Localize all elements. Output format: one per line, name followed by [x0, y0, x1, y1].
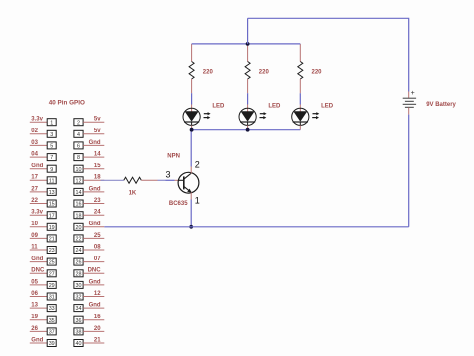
svg-text:220: 220 [259, 70, 270, 76]
GPIO pin 8 (14): pin box, wire stub, net label [74, 152, 104, 162]
GPIO pin 32 (12): pin box, wire stub, net label [74, 291, 104, 301]
LED D2 symbol [239, 105, 267, 126]
wire: Q1 emitter pin stub [190, 192, 192, 199]
wire: Q1 collector pin stub [190, 167, 192, 174]
svg-text:39: 39 [49, 341, 55, 347]
svg-text:20: 20 [76, 225, 82, 231]
GPIO pin 13 (27): wire stub, pin box, net label [30, 186, 56, 196]
svg-text:Gnd: Gnd [89, 221, 101, 227]
svg-text:25: 25 [49, 260, 55, 266]
GPIO pin 23 (11): wire stub, pin box, net label [30, 244, 56, 254]
svg-text:18: 18 [76, 213, 82, 219]
svg-text:220: 220 [312, 70, 323, 76]
svg-text:6: 6 [77, 144, 80, 150]
svg-text:04: 04 [31, 152, 38, 158]
GPIO pin 16 (23): pin box, wire stub, net label [74, 198, 104, 208]
svg-text:9V Battery: 9V Battery [426, 102, 456, 108]
GPIO pin 31 (06): wire stub, pin box, net label [30, 291, 56, 301]
svg-text:36: 36 [76, 318, 82, 324]
svg-text:30: 30 [76, 283, 82, 289]
svg-text:21: 21 [49, 237, 55, 243]
svg-text:16: 16 [94, 314, 101, 320]
GPIO pin 40 (21): pin box, wire stub, net label [74, 337, 104, 347]
wire: battery + pin stub [408, 92, 410, 98]
LED D3 symbol [292, 105, 320, 126]
ground rail wire: GPIO pin 20 to battery negative [104, 226, 408, 228]
svg-text:12: 12 [76, 178, 82, 184]
GPIO pin 39 (Gnd): wire stub, pin box, net label [30, 337, 56, 347]
positive supply rail wire (across resistors) [192, 43, 301, 45]
svg-text:LED: LED [212, 104, 225, 110]
svg-text:07: 07 [94, 256, 101, 262]
svg-text:3: 3 [50, 132, 53, 138]
svg-text:27: 27 [31, 186, 38, 192]
svg-text:28: 28 [76, 271, 82, 277]
GPIO pin 24 (08): pin box, wire stub, net label [74, 244, 104, 254]
GPIO pin 34 (Gnd): pin box, wire stub, net label [74, 303, 104, 313]
wire: Q1 emitter down to ground rail [190, 200, 192, 227]
svg-text:4: 4 [77, 132, 80, 138]
GPIO pin 26 (07): pin box, wire stub, net label [74, 256, 104, 266]
battery B1 9V (plates and + mark) [403, 90, 416, 107]
svg-text:06: 06 [31, 291, 38, 297]
svg-text:32: 32 [76, 295, 82, 301]
svg-text:25: 25 [94, 233, 101, 239]
GPIO pin 22 (25): pin box, wire stub, net label [74, 233, 104, 243]
svg-text:2: 2 [195, 159, 200, 169]
svg-text:20: 20 [94, 326, 101, 332]
svg-text:22: 22 [76, 237, 82, 243]
wire: battery - pin stub [408, 107, 410, 114]
svg-text:Gnd: Gnd [31, 337, 43, 343]
svg-text:3.3v: 3.3v [31, 117, 43, 123]
GPIO pin 27 (DNC): wire stub, pin box, net label [30, 268, 56, 278]
GPIO pin 2 (5v): pin box, wire stub, net label [74, 117, 104, 127]
wire: Q1 collector up to LED cathode rail [190, 130, 192, 167]
wire: LED D2 cathode stub to rail [247, 125, 249, 129]
GPIO pin 14 (Gnd): pin box, wire stub, net label [74, 186, 104, 196]
svg-text:33: 33 [49, 306, 55, 312]
svg-text:1: 1 [195, 195, 200, 205]
svg-text:31: 31 [49, 295, 55, 301]
svg-text:12: 12 [94, 291, 101, 297]
wire: riser from supply rail to top wire [247, 18, 249, 44]
GPIO pin 19 (10): wire stub, pin box, net label [30, 221, 56, 231]
wire: battery negative down to ground rail [408, 115, 410, 227]
svg-text:19: 19 [49, 225, 55, 231]
svg-text:DNC: DNC [88, 268, 102, 274]
GPIO pin 4 (5v): pin box, wire stub, net label [74, 128, 104, 138]
svg-text:7: 7 [50, 155, 53, 161]
GPIO pin 7 (04): wire stub, pin box, net label [30, 152, 56, 162]
GPIO pin 20 (Gnd): pin box, wire stub, net label [74, 221, 104, 231]
svg-text:23: 23 [94, 198, 101, 204]
svg-text:NPN: NPN [167, 153, 180, 159]
resistor R1 220: pin stubs and zigzag [189, 44, 194, 93]
wire: LED D1 cathode stub to rail [191, 125, 193, 129]
top wire to battery positive [248, 18, 409, 91]
GPIO pin 21 (09): wire stub, pin box, net label [30, 233, 56, 243]
svg-text:1: 1 [50, 120, 53, 126]
GPIO pin 12 (18): pin box, wire stub, net label [74, 175, 104, 185]
GPIO pin 29 (05): wire stub, pin box, net label [30, 279, 56, 289]
svg-text:34: 34 [76, 306, 82, 312]
GPIO pin 30 (Gnd): pin box, wire stub, net label [74, 279, 104, 289]
svg-text:15: 15 [49, 202, 55, 208]
svg-text:17: 17 [49, 213, 55, 219]
svg-text:09: 09 [31, 233, 38, 239]
svg-text:Gnd: Gnd [89, 279, 101, 285]
GPIO pin 36 (16): pin box, wire stub, net label [74, 314, 104, 324]
GPIO pin 17 (3.3v): wire stub, pin box, net label [30, 210, 56, 220]
GPIO pin 9 (Gnd): wire stub, pin box, net label [30, 163, 56, 173]
svg-text:+: + [411, 90, 415, 97]
LED D1 symbol [183, 105, 211, 126]
svg-text:38: 38 [76, 330, 82, 336]
svg-text:35: 35 [49, 318, 55, 324]
wire: base pin stub into Q1 [175, 179, 179, 181]
junction: emitter / ground rail [189, 225, 193, 229]
svg-text:19: 19 [31, 314, 38, 320]
svg-text:08: 08 [94, 244, 101, 250]
transistor Q1 BC635 NPN [178, 172, 199, 193]
svg-text:Gnd: Gnd [31, 163, 43, 169]
GPIO pin 25 (Gnd): wire stub, pin box, net label [30, 256, 56, 266]
svg-text:18: 18 [94, 175, 101, 181]
wire: R2 to LED D2 [247, 93, 249, 104]
GPIO pin 15 (22): wire stub, pin box, net label [30, 198, 56, 208]
svg-text:11: 11 [31, 244, 38, 250]
GPIO pin 37 (26): wire stub, pin box, net label [30, 326, 56, 336]
wire: R4 to Q1 base [158, 179, 166, 181]
svg-text:13: 13 [49, 190, 55, 196]
resistor R4 1K (base resistor) [124, 177, 158, 183]
svg-text:Gnd: Gnd [89, 303, 101, 309]
svg-text:1K: 1K [129, 190, 137, 196]
wire segment: into Q1 base [166, 179, 175, 181]
svg-text:24: 24 [94, 210, 101, 216]
wire: GPIO pin 12 (GPIO18) to resistor R4 [101, 179, 124, 181]
svg-text:5v: 5v [94, 128, 101, 134]
svg-text:17: 17 [31, 175, 38, 181]
svg-text:24: 24 [76, 248, 82, 254]
junction: supply rail / riser to battery [246, 42, 250, 46]
GPIO pin 18 (24): pin box, wire stub, net label [74, 210, 104, 220]
svg-text:26: 26 [76, 260, 82, 266]
LED cathode rail wire [192, 129, 301, 131]
GPIO pin 28 (DNC): pin box, wire stub, net label [74, 268, 104, 278]
svg-text:3: 3 [165, 169, 170, 179]
svg-text:27: 27 [49, 271, 55, 277]
wire: R1 to LED D1 [191, 93, 193, 104]
svg-text:Gnd: Gnd [89, 140, 101, 146]
svg-text:37: 37 [49, 330, 55, 336]
wire: LED D3 cathode stub to rail [299, 125, 301, 129]
svg-text:10: 10 [76, 167, 82, 173]
svg-text:9: 9 [50, 167, 53, 173]
svg-text:2: 2 [77, 120, 80, 126]
svg-text:03: 03 [31, 140, 38, 146]
svg-text:02: 02 [31, 128, 38, 134]
svg-text:40 Pin GPIO: 40 Pin GPIO [49, 100, 85, 107]
resistor R2 220: pin stubs and zigzag [245, 44, 250, 93]
GPIO pin 3 (02): wire stub, pin box, net label [30, 128, 56, 138]
GPIO pin 35 (19): wire stub, pin box, net label [30, 314, 56, 324]
GPIO pin 1 (3.3v): wire stub, pin box, net label [30, 117, 56, 127]
svg-text:220: 220 [203, 70, 214, 76]
GPIO pin 38 (20): pin box, wire stub, net label [74, 326, 104, 336]
svg-text:DNC: DNC [31, 268, 45, 274]
svg-text:LED: LED [321, 104, 334, 110]
svg-text:10: 10 [31, 221, 38, 227]
svg-text:8: 8 [77, 155, 80, 161]
svg-text:LED: LED [268, 104, 281, 110]
junction: D2 cathode / rail [246, 128, 250, 132]
GPIO pin 5 (03): wire stub, pin box, net label [30, 140, 56, 150]
GPIO pin 33 (13): wire stub, pin box, net label [30, 303, 56, 313]
GPIO pin 6 (Gnd): pin box, wire stub, net label [74, 140, 104, 150]
GPIO pin 10 (15): pin box, wire stub, net label [74, 163, 104, 173]
svg-text:14: 14 [76, 190, 82, 196]
svg-text:Gnd: Gnd [89, 186, 101, 192]
svg-text:15: 15 [94, 163, 101, 169]
svg-text:Gnd: Gnd [31, 256, 43, 262]
svg-text:5v: 5v [94, 117, 101, 123]
resistor R3 220: pin stubs and zigzag [298, 44, 303, 93]
wire: R3 to LED D3 [299, 93, 301, 104]
svg-text:5: 5 [50, 144, 53, 150]
svg-text:BC635: BC635 [169, 201, 188, 207]
svg-text:14: 14 [94, 152, 101, 158]
junction: D1 cathode / rail / collector [190, 128, 194, 132]
svg-text:23: 23 [49, 248, 55, 254]
svg-text:16: 16 [76, 202, 82, 208]
svg-text:26: 26 [31, 326, 38, 332]
svg-text:29: 29 [49, 283, 55, 289]
GPIO pin 11 (17): wire stub, pin box, net label [30, 175, 56, 185]
svg-text:05: 05 [31, 279, 38, 285]
svg-text:22: 22 [31, 198, 38, 204]
svg-text:11: 11 [49, 178, 55, 184]
svg-text:21: 21 [94, 337, 101, 343]
svg-text:13: 13 [31, 303, 38, 309]
svg-text:3.3v: 3.3v [31, 210, 43, 216]
svg-text:40: 40 [76, 341, 82, 347]
